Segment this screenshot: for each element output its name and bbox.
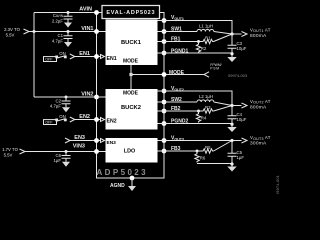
svg-text:R2: R2 — [201, 46, 207, 51]
svg-text:MODE: MODE — [169, 70, 185, 76]
svg-text:4.7µF: 4.7µF — [52, 38, 63, 43]
resistor R4 — [196, 111, 200, 123]
wire SW2 — [158, 101, 198, 103]
pin FB2 — [162, 109, 167, 114]
svg-text:C2: C2 — [56, 98, 62, 103]
node VIN1 cap junction — [67, 30, 70, 33]
input arrow VIN — [24, 29, 30, 34]
IC outline ADP5023 — [97, 13, 165, 179]
wire VOUT2 arrow — [232, 103, 247, 108]
label figure code vertical — [275, 175, 280, 195]
pin VOUT2 — [162, 89, 167, 94]
wire VIN1 stub internal — [97, 31, 106, 33]
svg-text:BUCK1: BUCK1 — [121, 40, 142, 46]
label C5 — [237, 150, 245, 160]
label R1 — [205, 36, 211, 41]
svg-text:5.5V: 5.5V — [4, 153, 13, 158]
node rail junction — [230, 123, 233, 126]
wire VIN2 row — [34, 96, 97, 98]
svg-text:OFF: OFF — [45, 58, 53, 62]
svg-text:SW2: SW2 — [171, 97, 182, 103]
switch EN2 ON/OFF — [44, 119, 67, 125]
node VIN rail junction — [33, 30, 36, 33]
label VOUT2 — [171, 86, 184, 92]
svg-text:ADP5023: ADP5023 — [97, 168, 149, 177]
wire FB3 — [158, 150, 203, 152]
svg-text:PGND1: PGND1 — [171, 48, 188, 54]
ground BUCK2 — [227, 127, 236, 132]
svg-text:EN2: EN2 — [107, 118, 117, 124]
label C3 — [237, 41, 247, 51]
wire R1 to node — [214, 34, 232, 42]
svg-text:MODE: MODE — [123, 91, 139, 97]
node MODE junction — [129, 73, 132, 76]
capacitor C5 1uF — [228, 141, 237, 164]
svg-text:FB1: FB1 — [171, 37, 181, 43]
label L2 — [199, 94, 213, 99]
svg-text:C6: C6 — [56, 153, 62, 158]
pin EN1 — [94, 54, 99, 59]
svg-text:EN3: EN3 — [74, 135, 85, 141]
input label VIN3 — [2, 147, 19, 158]
label VIN2 — [81, 92, 93, 98]
label figure code mid — [228, 73, 248, 78]
resistor R5 — [202, 149, 214, 153]
pin PGND2 — [162, 121, 167, 126]
pin VOUT3 — [162, 138, 167, 143]
svg-text:VOUT2: VOUT2 — [171, 86, 184, 92]
label C6 — [54, 153, 62, 163]
svg-text:1µF: 1µF — [54, 158, 62, 163]
label FB1 — [171, 37, 181, 43]
label AGND — [110, 183, 125, 189]
block BUCK2 — [106, 89, 158, 130]
svg-text:LDO: LDO — [124, 148, 135, 154]
label R2 — [201, 46, 207, 51]
svg-text:VOUT3: VOUT3 — [171, 136, 184, 142]
svg-text:VOUT1: VOUT1 — [171, 15, 184, 21]
svg-text:10µF: 10µF — [237, 117, 247, 122]
label ON — [59, 51, 65, 56]
node VOUT2 — [230, 104, 233, 107]
wire FB2 — [158, 110, 203, 112]
pin EN2 — [94, 117, 99, 122]
node FB2 junction — [197, 110, 200, 113]
svg-text:L1 1µH: L1 1µH — [199, 23, 213, 28]
ground BUCK1 — [227, 57, 236, 62]
pin SW2 — [162, 100, 167, 105]
label R4 — [201, 116, 207, 121]
wire L1 to node — [214, 32, 232, 35]
svg-text:2.2µF: 2.2µF — [52, 19, 63, 24]
node VOUT1 — [230, 32, 233, 35]
svg-text:EN1: EN1 — [107, 56, 117, 62]
svg-text:10µF: 10µF — [237, 46, 247, 51]
label PGND1 — [171, 48, 188, 54]
svg-text:1µF: 1µF — [237, 155, 245, 160]
svg-text:300mA: 300mA — [250, 141, 267, 147]
label R6 — [200, 156, 206, 161]
label C4 — [237, 112, 247, 122]
svg-text:09974-003: 09974-003 — [228, 73, 248, 78]
svg-text:VIN1: VIN1 — [81, 26, 93, 32]
wire L2 to node — [214, 102, 232, 106]
label SW1 — [171, 27, 182, 33]
block LDO — [106, 138, 158, 163]
wire EN3 — [65, 138, 97, 143]
svg-text:4.7µF: 4.7µF — [50, 104, 61, 109]
label C1 — [52, 33, 64, 43]
label OFF — [45, 58, 53, 62]
wire AGND — [131, 178, 133, 186]
resistor R1 — [202, 39, 214, 43]
label L1 — [199, 23, 213, 28]
svg-text:CAVIN: CAVIN — [53, 13, 64, 18]
label EN3 — [74, 135, 85, 141]
label AVIN — [79, 7, 92, 13]
part number box — [102, 6, 160, 19]
label EN2 — [79, 114, 90, 120]
wire VIN3 row — [25, 151, 97, 153]
capacitor C2 4.7uF — [62, 97, 71, 107]
label ADP5023 — [97, 168, 149, 177]
pin VIN1 — [94, 29, 99, 34]
node VIN3 cap junction — [65, 150, 68, 153]
svg-text:PGND2: PGND2 — [171, 119, 188, 125]
capacitor C1 4.7uF — [64, 32, 73, 43]
pin arrow EN3 internal — [98, 139, 105, 143]
wire VIN3 stub internal — [97, 151, 106, 153]
node VIN2 cap junction — [65, 96, 68, 99]
node FB1 junction — [197, 40, 200, 43]
label FB3 — [171, 146, 181, 152]
inductor L1 1uH — [197, 29, 214, 31]
resistor R3 — [202, 109, 214, 113]
label OFF — [45, 121, 53, 125]
svg-text:VOUT3 AT: VOUT3 AT — [250, 135, 271, 141]
svg-text:1.7V TO: 1.7V TO — [2, 147, 19, 152]
svg-text:R5: R5 — [205, 145, 211, 150]
capacitor C4 10uF — [228, 106, 237, 124]
svg-text:FB2: FB2 — [171, 106, 181, 112]
svg-text:R3: R3 — [205, 105, 211, 110]
wire AVIN rail — [34, 12, 97, 14]
svg-text:800mA: 800mA — [250, 104, 267, 110]
wire VIN vertical rail — [33, 13, 35, 98]
pin arrow EN2 internal — [98, 118, 105, 122]
svg-text:PSM: PSM — [210, 66, 219, 70]
svg-text:EN2: EN2 — [79, 114, 90, 120]
wire R3 to node — [214, 106, 232, 112]
svg-text:R1: R1 — [205, 36, 211, 41]
label EN1 — [79, 51, 90, 57]
wire EN2 — [70, 117, 97, 122]
svg-text:VOUT2 AT: VOUT2 AT — [250, 99, 271, 105]
svg-text:MODE: MODE — [123, 58, 139, 64]
label VOUT3 output — [250, 135, 271, 146]
wire SW1 — [158, 31, 198, 33]
svg-text:AGND: AGND — [110, 183, 125, 189]
wire VOUT2 — [158, 91, 233, 106]
label R3 — [205, 105, 211, 110]
svg-text:EN3: EN3 — [107, 140, 117, 146]
wire VIN input row — [29, 31, 97, 33]
label VOUT3 — [171, 136, 184, 142]
svg-text:VIN2: VIN2 — [81, 92, 93, 98]
label R5 — [205, 145, 211, 150]
svg-text:R4: R4 — [201, 116, 207, 121]
svg-text:EVAL-ADP5023: EVAL-ADP5023 — [106, 10, 155, 16]
svg-text:800mA: 800mA — [250, 33, 267, 39]
input arrow VIN3 — [20, 149, 26, 154]
ground AGND — [128, 186, 136, 191]
MODE net internal — [131, 65, 164, 89]
node rail junction — [230, 52, 233, 55]
label PGND2 — [171, 119, 188, 125]
wire VOUT3 — [158, 138, 248, 143]
label MODE — [169, 70, 185, 76]
node FB3 junction — [196, 150, 199, 153]
block BUCK1 — [106, 20, 158, 66]
label VIN1 — [81, 26, 93, 32]
pin EN3 — [94, 138, 99, 143]
pin SW1 — [162, 29, 167, 34]
pin VOUT1 — [162, 18, 167, 23]
svg-text:FB3: FB3 — [171, 146, 181, 152]
node VOUT3 — [230, 139, 233, 142]
svg-text:BUCK2: BUCK2 — [121, 105, 141, 111]
pin PGND1 — [162, 51, 167, 56]
pin VIN3 — [94, 149, 99, 154]
svg-text:5.5V: 5.5V — [6, 33, 15, 38]
node AVIN cap junction — [67, 11, 70, 14]
resistor R2 — [196, 42, 200, 54]
svg-text:ON: ON — [59, 114, 65, 119]
pin FB3 — [162, 149, 167, 154]
svg-text:09974-001: 09974-001 — [275, 175, 280, 194]
capacitor CAVIN 2.2uF — [64, 13, 73, 23]
ground C2 — [62, 107, 70, 112]
ground C6 — [62, 162, 70, 167]
label FPWM/PSM — [210, 63, 221, 71]
capacitor C3 10uF — [228, 34, 237, 53]
wire R5 to node — [214, 141, 232, 152]
svg-text:2.3V TO: 2.3V TO — [4, 27, 21, 32]
node rail junction — [230, 162, 233, 165]
wire FB3 bottom rail — [197, 164, 232, 167]
pin FB1 — [162, 39, 167, 44]
wire PGND2 — [158, 124, 233, 128]
svg-text:OFF: OFF — [45, 121, 53, 125]
label CAVIN — [52, 13, 64, 23]
ground C1 — [64, 42, 72, 47]
ground AVIN cap — [64, 23, 72, 28]
pin arrow EN1 internal — [98, 55, 105, 59]
svg-text:C1: C1 — [58, 33, 64, 38]
wire MODE external — [166, 72, 209, 77]
wire VOUT1 — [158, 21, 233, 35]
resistor R6 — [195, 151, 199, 163]
label FB2 — [171, 106, 181, 112]
label ON — [59, 114, 65, 119]
svg-text:AVIN: AVIN — [79, 7, 92, 13]
label C2 — [50, 98, 62, 108]
switch EN1 ON/OFF — [44, 56, 67, 62]
wire FB1 — [158, 41, 203, 43]
label VOUT1 — [171, 15, 184, 21]
wire PGND1 — [158, 53, 233, 57]
label VOUT1 output — [250, 27, 271, 38]
label VOUT2 output — [250, 99, 271, 110]
pin AGND — [130, 176, 135, 181]
pin MODE — [162, 72, 167, 77]
inductor L2 1uH — [197, 100, 214, 102]
svg-text:ON: ON — [59, 51, 65, 56]
svg-text:R6: R6 — [200, 156, 206, 161]
input label VIN — [4, 27, 21, 38]
svg-text:L2 1µH: L2 1µH — [199, 94, 213, 99]
svg-text:VIN3: VIN3 — [73, 144, 85, 150]
svg-text:VOUT1 AT: VOUT1 AT — [250, 27, 271, 33]
svg-text:SW1: SW1 — [171, 27, 182, 33]
wire VIN2 stub internal — [97, 96, 106, 98]
pin AVIN — [94, 10, 99, 15]
pin VIN2 — [94, 95, 99, 100]
ground LDO — [227, 167, 236, 172]
capacitor C6 1uF — [62, 152, 71, 162]
wire VOUT1 arrow — [232, 32, 247, 37]
wire EN1 — [70, 54, 97, 59]
svg-text:EN1: EN1 — [79, 51, 90, 57]
label SW2 — [171, 97, 182, 103]
label VIN3 — [73, 144, 85, 150]
